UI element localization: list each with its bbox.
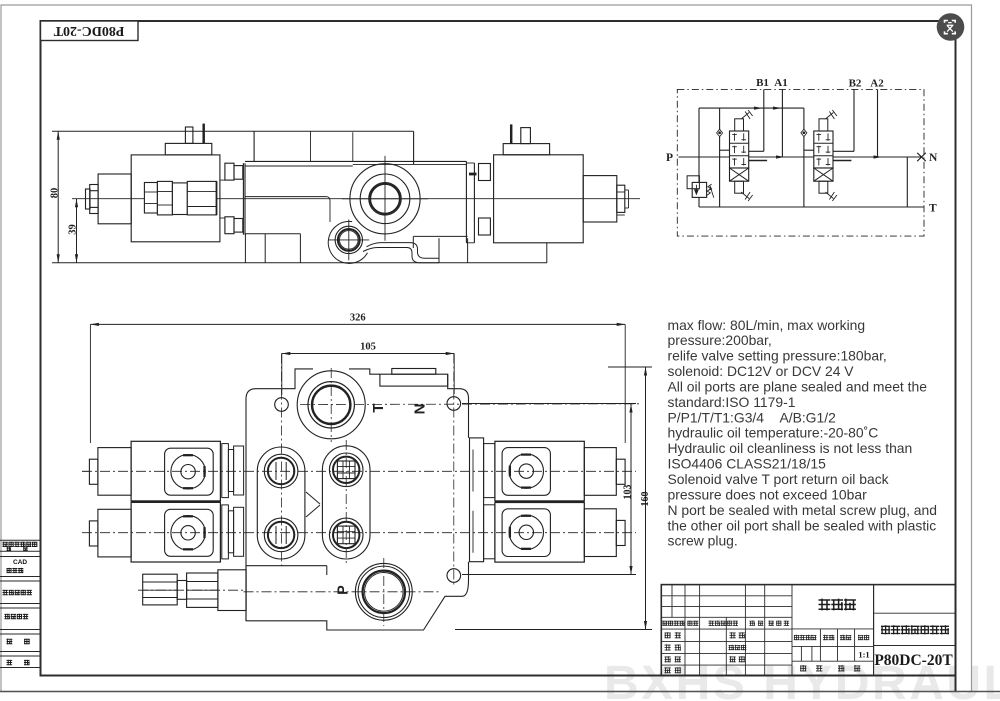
side view: body face split xyxy=(245,196,327,198)
solenoid top xyxy=(819,119,828,131)
side view: raised top section xyxy=(253,131,255,161)
check to valve stub xyxy=(720,149,730,151)
front view: T port boss xyxy=(297,371,365,439)
front view: right stack divider xyxy=(495,501,584,503)
solenoid bottom xyxy=(819,181,828,193)
A work line xyxy=(781,89,783,157)
side view: small port circle xyxy=(335,226,362,253)
check to valve stub xyxy=(804,149,814,151)
check valve xyxy=(801,129,807,136)
svg-text:ISO4406 CLASS21/18/15: ISO4406 CLASS21/18/15 xyxy=(668,456,827,472)
front view: T port circle xyxy=(308,382,354,428)
side view: interface plates right xyxy=(479,164,491,181)
svg-text:standard:ISO 1179-1: standard:ISO 1179-1 xyxy=(668,394,796,410)
front view: B1 port xyxy=(264,454,298,488)
B work line xyxy=(763,89,765,151)
side view: main body outline xyxy=(245,160,466,162)
front view: lower-left body edge xyxy=(245,566,247,621)
check valve line xyxy=(719,108,721,207)
left margin record table xyxy=(0,540,41,667)
svg-text:T: T xyxy=(929,203,937,215)
relief valve RV1 xyxy=(692,182,706,197)
front view: dim 103 xyxy=(462,403,636,405)
svg-text:39: 39 xyxy=(68,224,79,235)
T line xyxy=(699,206,924,208)
front view: left stack divider xyxy=(131,500,220,502)
N plugged port X xyxy=(917,153,926,161)
side view: left terminal xyxy=(185,127,193,143)
svg-text:N port be sealed with metal sc: N port be sealed with metal screw plug, … xyxy=(668,502,937,518)
svg-text:the other oil port shall be se: the other oil port shall be sealed with … xyxy=(668,517,937,533)
svg-text:CAD: CAD xyxy=(13,559,27,566)
side view: dim 80 xyxy=(52,130,414,132)
side view: S flange xyxy=(367,243,440,259)
front view: dim 105 xyxy=(282,353,454,355)
solenoid valve spool block xyxy=(730,131,749,168)
svg-text:103: 103 xyxy=(623,485,634,500)
spring X box xyxy=(730,168,749,181)
spring X box xyxy=(814,168,833,181)
side view: right coil plate xyxy=(503,144,549,155)
schematic boundary box xyxy=(677,89,924,236)
solenoid valve spool block xyxy=(814,131,833,168)
front view: A2 port xyxy=(329,518,363,552)
front view: P port boss xyxy=(355,563,412,620)
svg-text:P: P xyxy=(666,152,673,164)
P line flow arrows xyxy=(776,155,785,158)
feed header H1 xyxy=(699,107,804,109)
side view: bottom feet xyxy=(245,233,300,235)
svg-text:P/P1/T/T1:G3/4 A/B:G1/2: P/P1/T/T1:G3/4 A/B:G1/2 xyxy=(668,409,837,425)
svg-text:All oil ports are plane sealed: All oil ports are plane sealed and meet … xyxy=(668,379,928,395)
A work line xyxy=(877,89,879,157)
side view: right end cap xyxy=(583,176,617,222)
front view: main body outline xyxy=(246,369,469,630)
svg-text:Hydraulic oil cleanliness is n: Hydraulic oil cleanliness is not less th… xyxy=(668,440,913,456)
svg-text:B1: B1 xyxy=(756,77,769,89)
svg-text:A1: A1 xyxy=(774,77,787,89)
svg-text:P: P xyxy=(336,585,352,595)
side view: left coil plate xyxy=(165,143,212,155)
svg-text:T: T xyxy=(370,403,387,412)
side view: axis centerline xyxy=(72,198,640,200)
svg-text:105: 105 xyxy=(360,342,376,353)
check valve xyxy=(717,129,723,136)
valve side stub xyxy=(749,160,767,162)
front view: left solenoid stack xyxy=(131,441,220,501)
svg-text:P80DC-20T: P80DC-20T xyxy=(874,652,953,669)
check valve line xyxy=(803,108,805,207)
front view: B column boss xyxy=(257,447,305,559)
side view: left solenoid block xyxy=(131,155,220,242)
svg-text:326: 326 xyxy=(350,313,366,324)
side view: left end cap xyxy=(98,174,131,224)
svg-text:pressure:200bar,: pressure:200bar, xyxy=(668,332,772,348)
side view: right solenoid block xyxy=(494,155,584,243)
front view: B2 port xyxy=(264,518,298,552)
svg-text:P80DC-20T: P80DC-20T xyxy=(53,23,124,38)
side view: dim 39 xyxy=(76,199,78,263)
svg-text:80: 80 xyxy=(50,188,61,199)
P line xyxy=(679,156,922,158)
side view: lower-left boss arc xyxy=(328,221,367,263)
side view: big port boss circle xyxy=(350,164,420,234)
front view: web between port bosses xyxy=(306,492,320,504)
B work line xyxy=(853,89,855,151)
svg-text:N: N xyxy=(412,404,429,415)
svg-text:A2: A2 xyxy=(870,78,884,90)
front view: A1 port xyxy=(329,453,363,487)
svg-text:1:1: 1:1 xyxy=(858,650,869,660)
front view: corner mounting holes xyxy=(275,398,289,412)
svg-text:max flow: 80L/min, max working: max flow: 80L/min, max working xyxy=(668,317,866,333)
top-left part number box xyxy=(41,21,139,41)
svg-text:B2: B2 xyxy=(849,78,862,90)
carryover vertical xyxy=(906,157,908,207)
side view: body left edge xyxy=(242,163,244,235)
svg-text:160: 160 xyxy=(640,492,651,507)
side view: interface plates left xyxy=(225,163,234,180)
solenoid top xyxy=(735,119,744,131)
front view: left adapter plates xyxy=(222,444,229,498)
title block table xyxy=(661,585,955,676)
title block texts xyxy=(819,599,831,611)
translate button overlay xyxy=(937,13,965,41)
front view: axis lines left xyxy=(82,470,90,472)
front view: centerlines xyxy=(82,470,636,472)
svg-text:Solenoid valve T port return o: Solenoid valve T port return oil back xyxy=(668,471,889,487)
side view: body right end plate xyxy=(465,161,467,242)
side view: right terminal xyxy=(510,124,512,143)
svg-text:screw plug.: screw plug. xyxy=(668,533,738,549)
solenoid bottom xyxy=(735,181,744,193)
front view: top tab plate xyxy=(380,374,448,386)
side view: left end nut xyxy=(86,189,91,209)
front view: dim 160 xyxy=(608,366,652,368)
side view: manual override nut stack xyxy=(144,183,157,214)
svg-text:solenoid: DC12V or DCV 24 V: solenoid: DC12V or DCV 24 V xyxy=(668,363,855,379)
valve side stub xyxy=(833,160,851,162)
svg-text:hydraulic oil temperature:-20-: hydraulic oil temperature:-20-80˚C xyxy=(668,425,879,441)
svg-text:pressure does not exceed 10bar: pressure does not exceed 10bar xyxy=(668,486,868,502)
P branch left vertical xyxy=(698,108,700,182)
relief spring xyxy=(707,184,712,195)
front view: dim 326 xyxy=(90,323,625,325)
front view: right adapter plates xyxy=(470,438,484,562)
front view: A column boss xyxy=(322,446,370,559)
front view: relief valve fitting xyxy=(218,570,246,611)
front view: right solenoid stack xyxy=(495,441,584,501)
svg-text:relife valve setting pressure:: relife valve setting pressure:180bar, xyxy=(668,348,887,364)
svg-text:N: N xyxy=(929,152,938,164)
front view: P port circle xyxy=(358,566,409,617)
